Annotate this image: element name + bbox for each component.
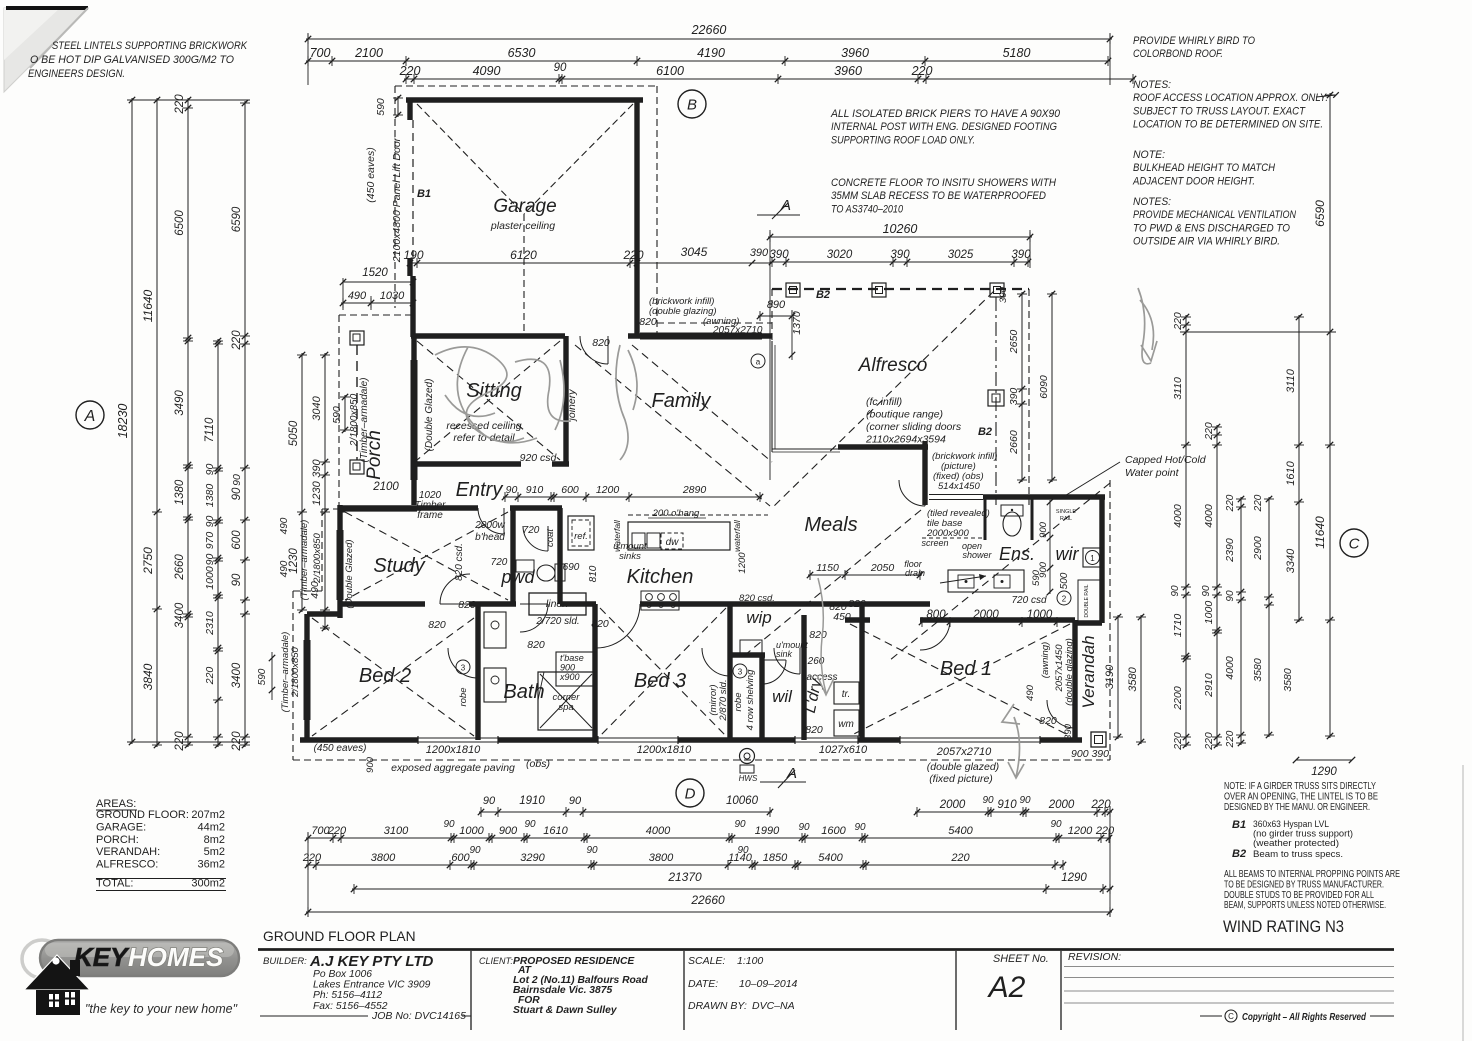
svg-text:1290: 1290 [1311, 766, 1337, 778]
svg-text:2900: 2900 [1252, 536, 1264, 561]
svg-text:(Double Glazed): (Double Glazed) [424, 379, 435, 452]
svg-text:(obs): (obs) [526, 758, 550, 770]
svg-text:220: 220 [911, 64, 933, 78]
svg-text:(450 eaves): (450 eaves) [314, 743, 367, 754]
svg-text:2660: 2660 [1008, 430, 1020, 455]
svg-text:18230: 18230 [116, 404, 130, 439]
svg-text:5m2: 5m2 [204, 846, 225, 858]
svg-text:DVC–NA: DVC–NA [752, 1000, 795, 1012]
svg-text:INTERNAL POST WITH ENG. DE: INTERNAL POST WITH ENG. DESIGNED FOOTING [831, 121, 1057, 133]
svg-text:OVER AN OPENING, THE LINTEL IS: OVER AN OPENING, THE LINTEL IS TO BE [1224, 791, 1378, 802]
svg-text:2000: 2000 [972, 609, 999, 621]
svg-text:600: 600 [451, 852, 470, 864]
svg-text:820: 820 [805, 724, 823, 736]
svg-text:(weather protected): (weather protected) [1253, 838, 1339, 848]
svg-text:1030: 1030 [380, 290, 405, 302]
svg-text:Alfresco: Alfresco [858, 355, 928, 376]
svg-text:1000: 1000 [204, 566, 216, 590]
svg-text:robe: robe [458, 687, 469, 706]
svg-text:220: 220 [302, 852, 322, 864]
svg-text:tr.: tr. [842, 689, 851, 700]
svg-text:wil: wil [772, 687, 793, 706]
svg-text:500: 500 [1059, 572, 1070, 589]
svg-text:90: 90 [1019, 795, 1031, 806]
svg-text:BEAM, SUPPORTS UNLESS NOTED OT: BEAM, SUPPORTS UNLESS NOTED OTHERWISE. [1224, 900, 1386, 911]
svg-text:220: 220 [174, 94, 186, 115]
svg-text:shower: shower [962, 550, 992, 560]
svg-text:x900: x900 [559, 672, 580, 682]
svg-text:590: 590 [257, 668, 268, 685]
svg-text:10260: 10260 [883, 222, 918, 236]
svg-text:690: 690 [563, 562, 580, 573]
svg-text:spa: spa [558, 702, 573, 713]
svg-text:screen: screen [921, 538, 948, 548]
svg-text:35MM SLAB RECESS TO BE WA: 35MM SLAB RECESS TO BE WATERPROOFED [831, 190, 1046, 202]
svg-text:3400: 3400 [174, 602, 186, 628]
svg-text:3840: 3840 [141, 663, 155, 690]
svg-text:linen: linen [546, 598, 568, 610]
svg-text:820: 820 [527, 639, 545, 651]
svg-text:90: 90 [982, 795, 994, 806]
svg-text:Bed 2: Bed 2 [359, 665, 411, 687]
svg-text:(fixed picture): (fixed picture) [929, 773, 993, 785]
svg-text:490: 490 [279, 560, 290, 577]
svg-text:2310: 2310 [204, 611, 216, 636]
svg-text:220: 220 [327, 825, 347, 837]
svg-text:1710: 1710 [1172, 614, 1184, 638]
svg-text:dw: dw [666, 537, 680, 548]
svg-text:390: 390 [311, 458, 323, 477]
svg-text:3580: 3580 [1127, 666, 1139, 691]
svg-text:3580: 3580 [1282, 668, 1294, 692]
svg-text:1:100: 1:100 [737, 955, 763, 967]
svg-text:GROUND FLOOR:: GROUND FLOOR: [96, 809, 189, 821]
svg-text:SHEET No.: SHEET No. [993, 953, 1049, 965]
svg-text:1230: 1230 [311, 480, 323, 505]
svg-text:Verandah: Verandah [1079, 635, 1098, 708]
svg-text:900: 900 [1038, 561, 1049, 578]
svg-text:WIND RATING N3: WIND RATING N3 [1223, 918, 1344, 936]
svg-text:1000: 1000 [1027, 609, 1053, 621]
svg-text:4000: 4000 [1172, 504, 1184, 528]
svg-text:3040: 3040 [311, 395, 323, 420]
svg-text:2910: 2910 [1203, 673, 1215, 698]
svg-text:220: 220 [174, 731, 186, 752]
svg-text:90: 90 [1170, 585, 1181, 597]
svg-text:1200: 1200 [737, 552, 748, 574]
svg-text:390: 390 [1063, 723, 1074, 740]
svg-text:190: 190 [403, 248, 423, 262]
svg-text:wir: wir [1056, 544, 1080, 564]
svg-text:COLORBOND ROOF.: COLORBOND ROOF. [1133, 48, 1223, 60]
svg-text:A.J KEY PTY LTD: A.J KEY PTY LTD [309, 953, 434, 970]
svg-text:2/1800x850: 2/1800x850 [312, 532, 323, 583]
svg-text:1150: 1150 [816, 562, 839, 574]
svg-text:SUPPORTING ROOF LOAD ONLY.: SUPPORTING ROOF LOAD ONLY. [831, 134, 975, 146]
svg-text:820: 820 [428, 619, 446, 631]
svg-text:90: 90 [204, 516, 216, 528]
svg-text:220: 220 [204, 667, 216, 686]
svg-text:CONCRETE FLOOR TO INSITU S: CONCRETE FLOOR TO INSITU SHOWERS WITH [831, 177, 1056, 189]
svg-text:Ens.: Ens. [999, 544, 1035, 564]
svg-text:DRAWN BY:: DRAWN BY: [688, 1000, 747, 1012]
svg-text:820: 820 [592, 337, 610, 349]
svg-text:Water point: Water point [1125, 467, 1180, 479]
svg-text:390: 390 [890, 249, 910, 261]
svg-text:B1: B1 [1232, 819, 1246, 831]
svg-text:220: 220 [1172, 732, 1184, 751]
svg-text:TO AS3740–2010: TO AS3740–2010 [831, 203, 903, 215]
svg-text:3490: 3490 [174, 390, 186, 416]
svg-text:(double glazing): (double glazing) [1064, 638, 1075, 706]
svg-text:SCALE:: SCALE: [688, 955, 725, 967]
svg-text:90: 90 [469, 845, 481, 856]
svg-text:600: 600 [231, 530, 243, 550]
svg-text:sinks: sinks [619, 551, 641, 562]
svg-text:5180: 5180 [1003, 46, 1031, 60]
svg-text:920 csd: 920 csd [520, 452, 558, 464]
svg-text:390: 390 [1008, 388, 1020, 406]
svg-text:90: 90 [443, 819, 455, 830]
svg-text:390: 390 [769, 249, 789, 261]
svg-text:GROUND FLOOR PLAN: GROUND FLOOR PLAN [263, 929, 416, 944]
svg-text:10–09–2014: 10–09–2014 [739, 978, 798, 990]
svg-text:90: 90 [737, 845, 749, 856]
svg-text:900: 900 [499, 825, 518, 837]
svg-text:ALFRESCO:: ALFRESCO: [96, 859, 158, 871]
svg-text:6530: 6530 [508, 46, 536, 60]
svg-text:910: 910 [526, 484, 544, 496]
svg-text:A2: A2 [987, 971, 1026, 1004]
svg-text:4000: 4000 [646, 825, 671, 837]
svg-text:810: 810 [588, 565, 599, 582]
svg-text:2/1800x850: 2/1800x850 [290, 646, 301, 697]
svg-text:Bath: Bath [503, 681, 544, 703]
svg-text:2/1800x850: 2/1800x850 [349, 393, 360, 447]
svg-text:1: 1 [1090, 554, 1095, 563]
svg-text:ALL ISOLATED BRICK PIERS T: ALL ISOLATED BRICK PIERS TO HAVE A 90X90 [830, 108, 1060, 120]
svg-text:4000: 4000 [1224, 656, 1236, 680]
svg-text:NOTE:: NOTE: [1133, 149, 1165, 161]
svg-text:90: 90 [483, 795, 496, 807]
svg-text:5400: 5400 [948, 825, 973, 837]
svg-text:B1: B1 [417, 188, 431, 200]
svg-text:900 390: 900 390 [1071, 748, 1109, 760]
svg-text:ADJACENT DOOR HEIGHT.: ADJACENT DOOR HEIGHT. [1132, 175, 1255, 187]
svg-text:OUTSIDE AIR VIA WHIRLY BIR: OUTSIDE AIR VIA WHIRLY BIRD. [1133, 236, 1280, 248]
svg-text:3110: 3110 [1172, 377, 1184, 400]
svg-text:3960: 3960 [834, 64, 862, 78]
svg-text:O BE HOT DIP GALVANISED 3: O BE HOT DIP GALVANISED 300G/M2 TO [30, 54, 234, 66]
svg-text:Kitchen: Kitchen [627, 566, 694, 588]
svg-text:2660: 2660 [174, 554, 186, 581]
svg-text:220: 220 [622, 248, 643, 262]
svg-text:6590: 6590 [1313, 200, 1327, 227]
svg-text:11640: 11640 [1313, 516, 1327, 549]
svg-text:200 o'hang: 200 o'hang [652, 508, 700, 519]
svg-text:A: A [84, 408, 96, 425]
svg-text:TO PWD & ENS DISCHARGED T: TO PWD & ENS DISCHARGED TO [1133, 222, 1291, 234]
svg-text:2/720 sld.: 2/720 sld. [535, 616, 579, 627]
svg-text:820: 820 [809, 629, 827, 641]
svg-text:STEEL LINTELS SUPPORTING BR: STEEL LINTELS SUPPORTING BRICKWORK [52, 40, 248, 52]
svg-text:3580: 3580 [1252, 658, 1264, 682]
svg-text:Bed 1: Bed 1 [940, 658, 992, 680]
svg-text:390: 390 [1011, 249, 1031, 261]
svg-text:3: 3 [738, 668, 743, 677]
svg-text:2: 2 [1062, 595, 1067, 604]
svg-text:REVISION:: REVISION: [1068, 951, 1121, 963]
svg-text:90: 90 [204, 554, 216, 566]
svg-text:390: 390 [998, 286, 1009, 303]
svg-text:JOB No: DVC14165: JOB No: DVC14165 [371, 1010, 466, 1022]
svg-text:DESIGNED BY THE MANU. OR ENGIN: DESIGNED BY THE MANU. OR ENGINEER. [1224, 802, 1370, 813]
svg-text:220: 220 [1203, 422, 1215, 441]
svg-text:B: B [687, 96, 697, 113]
svg-text:coat: coat [545, 529, 556, 547]
svg-text:(boutique range): (boutique range) [866, 409, 943, 421]
svg-text:(450 eaves): (450 eaves) [365, 147, 377, 202]
svg-text:1200x1810: 1200x1810 [426, 744, 481, 756]
svg-text:820: 820 [1039, 715, 1057, 727]
svg-text:2057x2710: 2057x2710 [936, 746, 992, 758]
svg-text:2000: 2000 [1048, 799, 1075, 811]
svg-text:1200: 1200 [1068, 825, 1093, 837]
svg-text:A: A [780, 197, 791, 214]
svg-text:5400: 5400 [818, 852, 843, 864]
svg-text:(Timber–armadale): (Timber–armadale) [299, 520, 310, 601]
svg-text:Study: Study [373, 555, 425, 577]
svg-text:700: 700 [310, 46, 331, 60]
svg-text:1850: 1850 [763, 852, 788, 864]
svg-text:(no girder truss support): (no girder truss support) [1253, 829, 1353, 839]
svg-text:Ph: 5156–4112: Ph: 5156–4112 [313, 990, 382, 1001]
svg-text:220: 220 [1203, 732, 1215, 751]
svg-text:b'head: b'head [475, 532, 505, 543]
svg-text:1990: 1990 [755, 825, 780, 837]
svg-text:C: C [1349, 535, 1360, 552]
svg-text:820: 820 [848, 598, 866, 610]
svg-text:220: 220 [1225, 730, 1236, 748]
svg-text:PORCH:: PORCH: [96, 834, 139, 846]
svg-text:2100: 2100 [354, 46, 383, 60]
svg-text:90: 90 [506, 484, 518, 496]
svg-text:Entry: Entry [456, 479, 504, 501]
svg-text:720: 720 [523, 525, 540, 536]
svg-text:2000x900: 2000x900 [926, 528, 969, 539]
svg-text:"the key to your new home": "the key to your new home" [85, 1002, 238, 1016]
svg-text:21370: 21370 [667, 870, 702, 884]
svg-text:1380: 1380 [204, 484, 216, 508]
svg-text:SUBJECT TO TRUSS LAYOUT. E: SUBJECT TO TRUSS LAYOUT. EXACT [1133, 105, 1306, 117]
svg-text:6500: 6500 [174, 210, 186, 236]
svg-text:B2: B2 [816, 289, 830, 301]
svg-text:90: 90 [554, 62, 567, 74]
svg-text:1027x610: 1027x610 [819, 744, 868, 756]
svg-text:90: 90 [231, 573, 243, 586]
svg-text:DATE:: DATE: [688, 978, 718, 990]
svg-text:36m2: 36m2 [197, 859, 225, 871]
svg-text:450: 450 [833, 611, 851, 623]
svg-text:PROVIDE MECHANICAL VENTILATI: PROVIDE MECHANICAL VENTILATION [1133, 209, 1296, 221]
svg-text:2200: 2200 [1172, 686, 1184, 711]
svg-text:D: D [685, 785, 696, 802]
svg-text:5050: 5050 [288, 420, 300, 446]
svg-text:820: 820 [591, 618, 609, 630]
svg-text:LOCATION TO BE DETERMINED: LOCATION TO BE DETERMINED ON SITE. [1133, 119, 1323, 131]
svg-text:pwd: pwd [500, 567, 535, 587]
svg-text:CLIENT:: CLIENT: [479, 956, 513, 966]
svg-text:exposed aggregate paving: exposed aggregate paving [391, 762, 515, 774]
svg-text:90: 90 [231, 487, 243, 500]
svg-text:BUILDER:: BUILDER: [263, 956, 307, 967]
svg-text:A: A [786, 765, 797, 782]
svg-text:1370: 1370 [791, 311, 803, 335]
svg-text:820 csd.: 820 csd. [454, 543, 465, 581]
svg-text:Bed 3: Bed 3 [634, 670, 686, 692]
svg-text:2000w: 2000w [474, 520, 505, 531]
svg-text:2890: 2890 [682, 484, 707, 496]
svg-text:820: 820 [639, 316, 657, 328]
svg-text:11640: 11640 [141, 289, 155, 322]
svg-text:1380: 1380 [174, 479, 186, 505]
svg-text:joinery: joinery [566, 389, 578, 423]
svg-text:4000: 4000 [1203, 504, 1215, 528]
svg-text:8m2: 8m2 [204, 834, 225, 846]
svg-text:490: 490 [1025, 684, 1036, 701]
svg-text:wm: wm [838, 719, 854, 730]
svg-text:1610: 1610 [1285, 460, 1297, 485]
svg-text:Copyright – All Rights Res: Copyright – All Rights Reserved [1242, 1012, 1367, 1023]
svg-text:B2: B2 [1232, 848, 1246, 860]
svg-text:890: 890 [767, 299, 786, 311]
svg-text:waterfall: waterfall [732, 519, 742, 552]
svg-text:DOUBLE RAIL: DOUBLE RAIL [1084, 584, 1090, 617]
svg-text:490: 490 [279, 517, 290, 534]
svg-text:910: 910 [997, 799, 1017, 811]
svg-text:6090: 6090 [1038, 375, 1050, 399]
svg-text:720 csd: 720 csd [1011, 595, 1046, 606]
svg-text:wip: wip [746, 608, 772, 627]
svg-text:t'base: t'base [560, 653, 584, 663]
svg-text:3100: 3100 [384, 825, 409, 837]
svg-text:GARAGE:: GARAGE: [96, 821, 146, 833]
svg-text:820: 820 [458, 599, 476, 611]
svg-text:820 csd.: 820 csd. [739, 593, 775, 604]
svg-text:90: 90 [854, 822, 866, 833]
svg-text:(double glazed): (double glazed) [927, 761, 999, 773]
svg-text:3340: 3340 [1285, 548, 1297, 573]
svg-text:TO BE DESIGNED BY TRUSS MANUFA: TO BE DESIGNED BY TRUSS MANUFACTURER. [1224, 879, 1384, 890]
svg-text:220: 220 [1172, 312, 1184, 331]
svg-text:6590: 6590 [231, 206, 243, 232]
svg-text:970: 970 [204, 532, 216, 550]
svg-text:VERANDAH:: VERANDAH: [96, 846, 160, 858]
svg-text:90: 90 [204, 464, 216, 476]
svg-text:2650: 2650 [1008, 330, 1020, 355]
svg-text:1910: 1910 [519, 795, 545, 807]
svg-text:ROOF ACCESS LOCATION APPROX: ROOF ACCESS LOCATION APPROX. ONLY. [1133, 92, 1328, 104]
svg-text:Lakes Entrance VIC 3909: Lakes Entrance VIC 3909 [313, 980, 431, 991]
svg-text:Po Box 1006: Po Box 1006 [313, 969, 372, 980]
svg-text:1610: 1610 [543, 825, 568, 837]
svg-text:frame: frame [417, 510, 443, 521]
svg-text:Stuart & Dawn Sulley: Stuart & Dawn Sulley [513, 1005, 618, 1016]
svg-text:6120: 6120 [510, 248, 537, 262]
svg-text:590: 590 [375, 98, 387, 116]
svg-text:C: C [1228, 1012, 1234, 1021]
svg-text:ALL BEAMS TO INTERNAL PROPPING: ALL BEAMS TO INTERNAL PROPPING POINTS AR… [1224, 869, 1400, 880]
svg-text:2390: 2390 [1224, 538, 1236, 563]
svg-text:7110: 7110 [204, 417, 216, 442]
svg-text:drain: drain [905, 568, 925, 578]
svg-text:PROPOSED RESIDENCE: PROPOSED RESIDENCE [513, 956, 635, 967]
svg-text:1200x1810: 1200x1810 [637, 744, 692, 756]
svg-text:Meals: Meals [804, 514, 857, 536]
svg-text:recessed ceiling: recessed ceiling [446, 420, 521, 432]
svg-text:2750: 2750 [141, 547, 155, 575]
svg-text:3: 3 [461, 664, 466, 673]
svg-text:360x63 Hyspan LVL: 360x63 Hyspan LVL [1253, 819, 1329, 829]
svg-text:2100: 2100 [372, 481, 399, 493]
svg-text:sink: sink [776, 649, 793, 659]
svg-text:1290: 1290 [1061, 872, 1087, 884]
svg-text:220: 220 [950, 852, 970, 864]
svg-text:220: 220 [231, 330, 243, 351]
svg-text:1000: 1000 [459, 825, 484, 837]
svg-text:NOTES:: NOTES: [1133, 79, 1171, 91]
svg-text:(Timber–armadale): (Timber–armadale) [359, 378, 370, 463]
svg-text:KEY: KEY [74, 942, 130, 972]
svg-text:3400: 3400 [231, 662, 243, 688]
svg-text:10060: 10060 [726, 795, 759, 807]
svg-text:90: 90 [231, 474, 243, 486]
svg-text:NOTE: IF A GIRDER TRUSS SITS D: NOTE: IF A GIRDER TRUSS SITS DIRECTLY [1224, 781, 1376, 792]
svg-text:plaster ceiling: plaster ceiling [490, 220, 555, 232]
svg-text:90: 90 [569, 795, 582, 807]
svg-text:207m2: 207m2 [191, 809, 225, 821]
svg-text:DOUBLE STUDS TO BE PROVIDED FO: DOUBLE STUDS TO BE PROVIDED FOR ALL [1224, 890, 1374, 901]
svg-text:490: 490 [348, 290, 367, 302]
svg-text:PROVIDE WHIRLY BIRD TO: PROVIDE WHIRLY BIRD TO [1133, 35, 1256, 47]
svg-text:220: 220 [231, 731, 243, 752]
svg-text:2100x4800 Panel Lift Door: 2100x4800 Panel Lift Door [391, 137, 403, 263]
svg-text:220: 220 [1225, 494, 1236, 512]
svg-text:220: 220 [399, 64, 421, 78]
svg-text:Sitting: Sitting [466, 380, 522, 402]
svg-text:3800: 3800 [371, 852, 396, 864]
svg-text:900: 900 [1038, 521, 1049, 538]
svg-text:B2: B2 [978, 426, 992, 438]
svg-text:6100: 6100 [656, 64, 684, 78]
svg-text:(Double Glazed): (Double Glazed) [344, 539, 355, 608]
svg-text:ref.: ref. [574, 531, 588, 542]
svg-text:1520: 1520 [362, 267, 388, 279]
svg-text:90: 90 [524, 819, 536, 830]
svg-text:TOTAL:: TOTAL: [96, 878, 134, 890]
svg-text:300m2: 300m2 [191, 878, 225, 890]
svg-text:3110: 3110 [1285, 368, 1297, 393]
svg-text:22660: 22660 [690, 893, 725, 907]
svg-text:1600: 1600 [821, 825, 846, 837]
svg-text:3025: 3025 [948, 249, 974, 261]
svg-text:Garage: Garage [493, 196, 556, 217]
svg-text:2/870 sld.: 2/870 sld. [718, 679, 729, 721]
svg-text:(fc infill): (fc infill) [866, 396, 902, 408]
svg-text:Family: Family [652, 390, 712, 412]
svg-text:90: 90 [798, 822, 810, 833]
svg-text:3045: 3045 [681, 245, 708, 259]
